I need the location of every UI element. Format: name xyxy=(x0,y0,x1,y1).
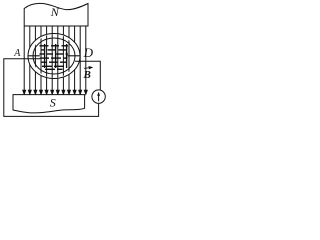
grid row 4 xyxy=(40,57,49,59)
field line 9 xyxy=(68,27,71,95)
grid row 2 xyxy=(41,49,45,51)
field line 6 xyxy=(51,27,54,95)
field line 8 xyxy=(62,27,65,95)
field line 10 xyxy=(73,27,76,95)
svg-text:A: A xyxy=(13,48,21,59)
grid row 7 xyxy=(45,68,55,70)
coil axle right stub xyxy=(68,55,80,57)
field lines inside coil window xyxy=(35,34,69,78)
field lines B (from N to S) with down arrowheads xyxy=(23,27,87,95)
grid row 3 xyxy=(40,53,45,55)
wire from D (right lead) xyxy=(75,61,100,90)
svg-text:D: D xyxy=(83,45,94,60)
galvanometer G xyxy=(92,90,105,103)
coil axle left stub xyxy=(28,55,40,57)
wire from A (left lead) xyxy=(4,59,99,117)
field line 11 xyxy=(79,27,82,95)
magnet N pole (top) xyxy=(24,3,88,26)
field line 2 xyxy=(28,27,31,95)
galvanometer needle arrow xyxy=(98,95,100,102)
coil inner circle xyxy=(33,38,75,74)
field line 4 xyxy=(40,27,43,95)
field line 12 xyxy=(84,27,87,95)
field line 3 xyxy=(34,27,37,95)
grid row 5 xyxy=(41,61,47,63)
grid row 1 xyxy=(40,45,49,47)
grid verticals xyxy=(44,44,46,68)
svg-text:N: N xyxy=(50,5,60,19)
field line 5 xyxy=(45,27,48,95)
coil winding grid (armature cross-section) xyxy=(40,44,69,69)
svg-text:B: B xyxy=(83,69,91,81)
field line 7 xyxy=(56,27,59,95)
N pole bottom edge xyxy=(24,25,88,27)
grid row 6 xyxy=(42,65,52,67)
svg-text:S: S xyxy=(50,96,56,110)
magnet S pole (bottom) xyxy=(13,95,85,113)
B vector arrow mark xyxy=(84,67,92,69)
coil outer ring (white mask over field lines) xyxy=(28,34,80,79)
field line 1 xyxy=(23,27,26,95)
